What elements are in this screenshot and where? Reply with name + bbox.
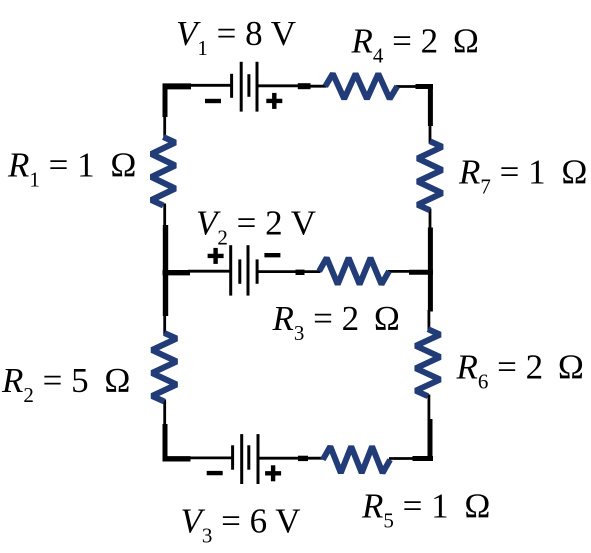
wire: bottom rail, thick stub from bottom-left corner bbox=[163, 456, 191, 461]
wire: left vertical, bottom-left corner rise (thick) bbox=[163, 424, 168, 461]
battery V2 minus sign bbox=[264, 253, 280, 257]
battery V2 plus sign bbox=[208, 248, 224, 264]
resistor R4 bbox=[325, 74, 397, 99]
wire: left vertical, thick segment through middle-left junction bbox=[163, 225, 168, 316]
wire: top rail, thin lead into R4 bbox=[309, 85, 327, 88]
wire: left vertical, thin lead out of R1 bottom bbox=[163, 204, 166, 228]
svg-text:R3 = 2 Ω: R3 = 2 Ω bbox=[272, 299, 400, 345]
wire: bottom rail, thin lead into V3 negative plate bbox=[188, 456, 233, 459]
svg-text:R4 = 2 Ω: R4 = 2 Ω bbox=[351, 21, 479, 67]
svg-text:R7 = 1 Ω: R7 = 1 Ω bbox=[458, 153, 587, 199]
wire: bottom rail, thick dash between V3 and R5 bbox=[298, 456, 308, 461]
wire: middle rail, thin lead from V2 negative plate bbox=[257, 270, 297, 273]
resistor R6 bbox=[416, 329, 440, 396]
svg-text:V3 = 6 V: V3 = 6 V bbox=[181, 502, 301, 548]
svg-text:V2 = 2 V: V2 = 2 V bbox=[196, 203, 316, 249]
svg-text:R5 = 1 Ω: R5 = 1 Ω bbox=[361, 486, 490, 532]
wire: top rail, thick stub from top-left corner bbox=[163, 83, 192, 89]
resistor R5 bbox=[323, 447, 390, 473]
svg-text:V1 = 8 V: V1 = 8 V bbox=[176, 14, 296, 60]
wire: middle rail, thick dash between V2 and R3 bbox=[296, 270, 305, 275]
svg-text:R6 = 2 Ω: R6 = 2 Ω bbox=[456, 348, 584, 394]
battery V3 bbox=[233, 434, 258, 484]
wire: middle rail, thin lead into V2 positive plate bbox=[188, 270, 232, 273]
wire: right vertical, top-right corner drop (thick) bbox=[428, 84, 433, 126]
wire: top rail, thin lead out of R4 bbox=[396, 85, 418, 88]
battery V3 minus sign bbox=[207, 471, 223, 475]
resistor R3 bbox=[319, 258, 389, 284]
wire: top rail, thick dash between V1 and R4 bbox=[298, 83, 311, 89]
battery V1 minus sign bbox=[205, 99, 221, 103]
resistor R2 bbox=[152, 333, 177, 402]
wire: middle rail, thick stub from middle-left junction bbox=[163, 270, 191, 275]
wire: right vertical, thick segment through middle-right junction bbox=[428, 228, 433, 312]
wire: middle rail, thin lead out of R3 bbox=[388, 270, 410, 273]
wire: left vertical, thin lead into R2 top bbox=[163, 313, 166, 335]
wire: bottom rail, thick stub into bottom-right corner bbox=[413, 456, 434, 461]
svg-text:R2 = 5 Ω: R2 = 5 Ω bbox=[1, 361, 130, 407]
wire: top rail, thin lead into V1 negative plate bbox=[189, 84, 232, 87]
wire: bottom rail, thin lead into R5 bbox=[307, 457, 325, 460]
wire: right vertical, thin lead into R6 top bbox=[427, 310, 430, 331]
wire: left vertical, top-left corner drop (thick) bbox=[163, 84, 168, 117]
wire: middle rail, thick stub into middle-right junction bbox=[409, 270, 433, 275]
wire: right vertical, bottom-right corner rise (thick) bbox=[428, 419, 433, 461]
wire: right vertical, thin lead out of R7 bottom bbox=[429, 209, 432, 230]
wire: top rail, thick stub into top-right corner bbox=[416, 84, 434, 89]
battery V1 plus sign bbox=[266, 93, 282, 109]
wire: right vertical, thin lead out of R6 bottom bbox=[427, 395, 430, 421]
resistor R1 bbox=[151, 137, 175, 206]
wire: bottom rail, thin lead out of R5 bbox=[389, 457, 415, 460]
resistor R7 bbox=[418, 141, 443, 210]
battery V1 bbox=[232, 62, 257, 112]
wire: left vertical, thin lead out of R2 bottom bbox=[163, 400, 166, 427]
battery V2 bbox=[231, 245, 257, 295]
wire: bottom rail, thin lead from V3 positive plate bbox=[258, 457, 299, 460]
wire: right vertical, thin lead into R7 top bbox=[429, 124, 432, 144]
svg-text:R1 = 1 Ω: R1 = 1 Ω bbox=[7, 146, 136, 192]
wire: left vertical, thin lead into R1 top bbox=[163, 115, 166, 139]
wire: middle rail, thin lead into R3 bbox=[303, 270, 321, 273]
battery V3 plus sign bbox=[265, 465, 281, 481]
wire: top rail, thin lead from V1 positive plate bbox=[258, 84, 299, 87]
